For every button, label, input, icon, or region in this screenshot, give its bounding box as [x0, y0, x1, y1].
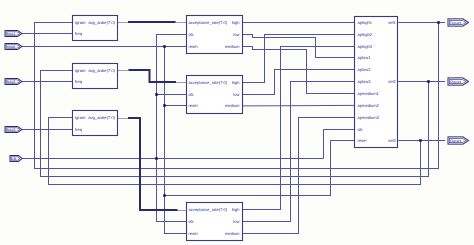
svg-text:f3grant: f3grant — [450, 139, 461, 143]
svg-text:freq1: freq1 — [7, 32, 15, 36]
svg-text:high: high — [232, 207, 240, 212]
svg-text:reset: reset — [189, 44, 199, 49]
svg-text:aplow2: aplow2 — [358, 67, 372, 72]
svg-text:medium: medium — [225, 103, 240, 108]
svg-text:low: low — [233, 32, 239, 37]
svg-text:reset: reset — [7, 45, 15, 49]
svg-text:sel2: sel2 — [388, 79, 396, 84]
svg-text:aphigh2: aphigh2 — [358, 32, 373, 37]
svg-text:aplow3: aplow3 — [358, 79, 372, 84]
svg-text:freq2: freq2 — [7, 80, 15, 84]
svg-text:medium: medium — [225, 231, 240, 236]
svg-text:reset: reset — [189, 103, 199, 108]
svg-text:aplow1: aplow1 — [358, 55, 372, 60]
svg-text:avg_arate(7:0): avg_arate(7:0) — [88, 68, 115, 73]
svg-text:apmedium2: apmedium2 — [358, 103, 380, 108]
svg-text:avg_arate(7:0): avg_arate(7:0) — [88, 115, 115, 120]
svg-text:low: low — [233, 92, 239, 97]
svg-text:sel1: sel1 — [388, 20, 396, 25]
svg-text:apmedium1: apmedium1 — [358, 91, 380, 96]
svg-text:clk: clk — [12, 157, 17, 161]
svg-text:f2grant: f2grant — [450, 80, 461, 84]
svg-text:tgrant: tgrant — [75, 68, 86, 73]
svg-text:sel3: sel3 — [388, 138, 396, 143]
svg-text:freq3: freq3 — [7, 128, 15, 132]
svg-text:tgrant: tgrant — [75, 115, 86, 120]
svg-text:f1grant: f1grant — [450, 21, 461, 25]
svg-text:avg_arate(7:0): avg_arate(7:0) — [88, 20, 115, 25]
svg-text:aphigh1: aphigh1 — [358, 20, 373, 25]
svg-text:reset: reset — [189, 231, 199, 236]
svg-text:tgrant: tgrant — [75, 20, 86, 25]
svg-text:freq: freq — [75, 31, 83, 36]
svg-text:freq: freq — [75, 79, 83, 84]
svg-text:acceptance_rate(7:0): acceptance_rate(7:0) — [189, 80, 228, 85]
svg-text:freq: freq — [75, 127, 83, 132]
svg-text:high: high — [232, 80, 240, 85]
svg-text:medium: medium — [225, 44, 240, 49]
svg-text:apmedium3: apmedium3 — [358, 115, 380, 120]
svg-text:acceptance_rate(7:0): acceptance_rate(7:0) — [189, 20, 228, 25]
svg-text:low: low — [233, 219, 239, 224]
svg-text:high: high — [232, 20, 240, 25]
svg-text:reset: reset — [358, 138, 368, 143]
svg-text:aphigh3: aphigh3 — [358, 44, 373, 49]
svg-text:acceptance_rate(7:0): acceptance_rate(7:0) — [189, 207, 228, 212]
